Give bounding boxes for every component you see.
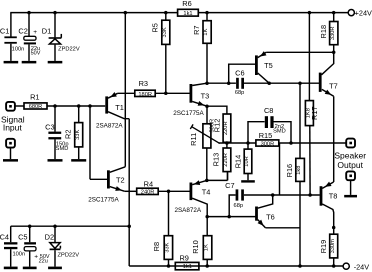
svg-text:T8: T8 [329, 192, 338, 201]
svg-text:1K: 1K [203, 28, 209, 35]
svg-text:R4: R4 [144, 179, 153, 188]
svg-text:1k1: 1k1 [183, 264, 192, 270]
svg-text:Input: Input [3, 123, 23, 133]
svg-text:ZPD22V: ZPD22V [58, 252, 80, 258]
svg-text:2SA872A: 2SA872A [96, 123, 123, 130]
svg-text:R18: R18 [319, 25, 328, 39]
svg-text:ZPD22V: ZPD22V [58, 46, 80, 52]
svg-text:C2: C2 [18, 27, 27, 36]
svg-text:10R: 10R [244, 156, 250, 166]
svg-text:R15: R15 [259, 131, 273, 140]
svg-text:220R: 220R [223, 121, 229, 135]
svg-text:R10: R10 [191, 240, 200, 254]
svg-text:R11: R11 [189, 133, 198, 146]
svg-text:33K: 33K [165, 242, 171, 252]
svg-text:C5: C5 [18, 233, 27, 242]
svg-text:22u: 22u [39, 259, 48, 265]
svg-text:R6: R6 [182, 0, 191, 8]
svg-text:T7: T7 [329, 82, 338, 91]
svg-text:R1: R1 [30, 92, 39, 101]
svg-text:68p: 68p [235, 90, 245, 96]
svg-text:2SC1775A: 2SC1775A [88, 196, 119, 203]
svg-text:180R: 180R [138, 92, 152, 98]
svg-text:680R: 680R [29, 104, 43, 110]
svg-text:T1: T1 [115, 103, 124, 112]
svg-text:T2: T2 [116, 175, 125, 184]
svg-text:SMD: SMD [56, 146, 69, 152]
svg-text:50V: 50V [31, 51, 41, 57]
svg-text:1k1: 1k1 [183, 11, 192, 17]
svg-text:R5: R5 [151, 23, 160, 32]
svg-text:300R: 300R [261, 141, 275, 147]
svg-text:D2: D2 [45, 233, 54, 242]
svg-text:C6: C6 [235, 68, 244, 77]
svg-text:R17: R17 [310, 106, 319, 120]
svg-text:R12: R12 [212, 119, 221, 133]
svg-text:C4: C4 [0, 233, 9, 242]
svg-text:330R: 330R [330, 26, 336, 40]
svg-text:C3: C3 [45, 122, 54, 131]
svg-text:C1: C1 [0, 27, 9, 36]
svg-text:220R: 220R [223, 153, 229, 167]
svg-text:100n: 100n [12, 46, 25, 52]
svg-text:R3: R3 [139, 79, 148, 88]
svg-text:68p: 68p [234, 203, 244, 209]
svg-text:1K: 1K [204, 244, 210, 251]
svg-text:R2: R2 [63, 129, 72, 138]
svg-text:2SA872A: 2SA872A [174, 207, 201, 214]
svg-text:SMD: SMD [273, 129, 286, 135]
svg-text:33K: 33K [75, 130, 81, 140]
svg-text:T6: T6 [266, 212, 275, 221]
svg-text:C7: C7 [225, 181, 234, 190]
svg-text:Output: Output [337, 160, 363, 170]
svg-text:+24V: +24V [355, 9, 372, 18]
svg-text:R19: R19 [319, 240, 328, 254]
svg-text:T3: T3 [201, 91, 210, 100]
svg-text:240R: 240R [141, 190, 155, 196]
svg-text:+: + [33, 29, 37, 36]
svg-text:C8: C8 [264, 106, 273, 115]
svg-text:R7: R7 [192, 25, 201, 34]
svg-text:100n: 100n [12, 252, 25, 258]
svg-text:R13: R13 [212, 153, 221, 167]
svg-text:T5: T5 [264, 61, 273, 70]
svg-text:33K: 33K [162, 27, 168, 37]
svg-text:R16: R16 [285, 164, 294, 178]
svg-text:2SC1775A: 2SC1775A [173, 110, 204, 117]
svg-text:R14: R14 [234, 155, 243, 169]
svg-text:D1: D1 [42, 27, 51, 36]
svg-text:330m: 330m [330, 239, 336, 253]
svg-text:T4: T4 [202, 188, 211, 197]
svg-text:R9: R9 [179, 253, 188, 262]
svg-text:1k8: 1k8 [296, 166, 302, 175]
svg-text:R8: R8 [152, 242, 161, 251]
svg-text:-24V: -24V [354, 262, 370, 271]
